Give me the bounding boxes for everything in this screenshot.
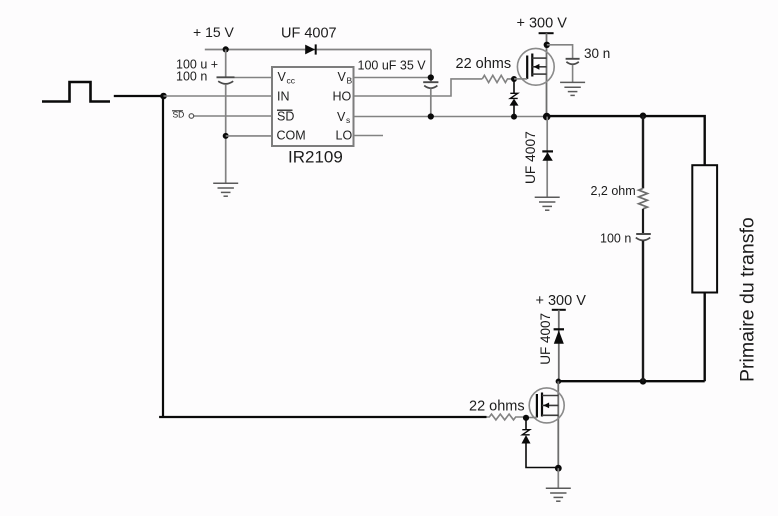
svg-text:cc: cc: [287, 76, 296, 86]
svg-text:22 ohms: 22 ohms: [456, 56, 512, 72]
svg-text:V: V: [278, 70, 287, 84]
svg-text:+ 15 V: + 15 V: [193, 24, 235, 40]
svg-text:COM: COM: [277, 129, 306, 143]
svg-text:UF 4007: UF 4007: [281, 26, 337, 42]
svg-text:Primaire du transfo: Primaire du transfo: [737, 217, 759, 382]
svg-text:+ 300 V: + 300 V: [517, 16, 568, 32]
svg-text:UF 4007: UF 4007: [523, 131, 538, 184]
svg-text:LO: LO: [336, 129, 353, 143]
svg-text:B: B: [347, 76, 353, 86]
svg-text:UF 4007: UF 4007: [538, 313, 553, 365]
svg-text:+ 300 V: + 300 V: [536, 293, 587, 309]
svg-text:100 n: 100 n: [176, 70, 207, 84]
svg-text:s: s: [346, 115, 350, 125]
svg-text:V: V: [338, 70, 347, 84]
svg-text:100 uF 35 V: 100 uF 35 V: [358, 59, 427, 73]
svg-text:IR2109: IR2109: [288, 147, 343, 166]
svg-text:100 n: 100 n: [600, 232, 631, 246]
svg-text:30 n: 30 n: [584, 46, 610, 61]
svg-text:SD: SD: [277, 110, 294, 124]
svg-text:22 ohms: 22 ohms: [469, 399, 525, 415]
svg-text:HO: HO: [333, 89, 352, 103]
svg-text:IN: IN: [277, 89, 290, 103]
svg-text:2,2 ohm: 2,2 ohm: [591, 184, 636, 198]
svg-text:V: V: [337, 110, 346, 124]
